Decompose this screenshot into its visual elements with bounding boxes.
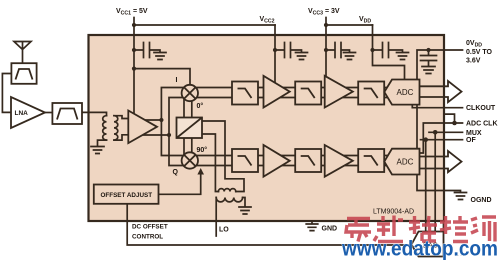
wire OGND pin <box>444 191 461 193</box>
wire CLKOUT pin <box>444 107 463 109</box>
svg-text:90°: 90° <box>197 146 208 154</box>
svg-text:CONTROL: CONTROL <box>132 234 163 241</box>
ground for C1 <box>154 53 166 60</box>
wire T2 primary to ground <box>243 198 245 207</box>
svg-text:······: ······ <box>455 253 464 258</box>
lowpass filter LPF6 Q <box>358 149 384 172</box>
wire MUX pin <box>429 131 463 133</box>
capacitor C1 <box>134 43 160 58</box>
ADC I <box>384 80 419 105</box>
svg-text:DC OFFSET: DC OFFSET <box>132 224 168 231</box>
svg-text:LTM9004-AD: LTM9004-AD <box>373 209 414 216</box>
svg-text:OF: OF <box>466 137 476 144</box>
capacitor C4 <box>373 43 403 58</box>
antenna <box>14 42 31 64</box>
capacitor C3 <box>326 43 350 58</box>
svg-text:www.edatop.com: www.edatop.com <box>341 237 498 261</box>
svg-text:GND: GND <box>322 225 338 232</box>
wire A0 diff output lower split <box>143 98 186 166</box>
junction dots <box>132 23 136 27</box>
watermark chinese red <box>346 216 496 242</box>
ADC Q <box>384 149 419 175</box>
svg-text:Q: Q <box>173 169 179 176</box>
wire OGND inner <box>417 175 444 191</box>
phase splitter 0/90 <box>177 118 203 139</box>
amplifier A3 Q <box>264 145 290 177</box>
ground for OGND <box>455 193 467 200</box>
svg-text:3.6V: 3.6V <box>466 58 481 65</box>
ground for C4 <box>397 53 409 60</box>
svg-text:LNA: LNA <box>15 110 29 117</box>
module LTM9004 body <box>89 35 445 221</box>
wire offset adjust to Q arrow <box>159 174 201 195</box>
wire OF vertical to DAC <box>425 140 427 232</box>
input transformer T1 secondary <box>114 116 118 140</box>
wire LO drive to mixer M2 <box>184 138 192 156</box>
wire OVDD pin <box>417 50 463 149</box>
bandpass filter F1 <box>11 63 36 84</box>
wire T1 to amp A0 lower <box>114 135 129 140</box>
wire T1 primary to ground <box>98 140 107 146</box>
arrow offset inject head <box>197 168 204 175</box>
LNA amplifier <box>11 97 45 128</box>
wire ADC CLK second pin bend <box>444 114 455 123</box>
svg-text:OGND: OGND <box>471 197 492 204</box>
offset adjust block <box>94 185 159 204</box>
wire LNA to filter F2 <box>45 112 52 114</box>
amplifier A1 I <box>264 76 290 108</box>
wire I chain upper line <box>186 87 390 89</box>
capacitor C5 OVDD bypass <box>421 50 437 66</box>
wire LO drive to mixer M1 <box>184 98 192 118</box>
mixer M2 <box>182 152 198 168</box>
wire VCC1 to VCC2 rail <box>134 24 275 26</box>
amplifier A0 <box>128 111 157 144</box>
svg-text:ADC CLK: ADC CLK <box>466 121 498 128</box>
input transformer T1 primary <box>103 116 107 140</box>
DAC block <box>412 232 444 257</box>
lowpass filter LPF4 Q <box>232 149 258 172</box>
wire ADC CLK inner <box>420 123 445 153</box>
wire RF input into module <box>82 112 107 115</box>
mixer M1 <box>182 85 198 101</box>
svg-text:OFFSET ADJUST: OFFSET ADJUST <box>101 192 153 199</box>
wire T1 to amp A0 upper <box>114 116 129 119</box>
wire VDD drop to ADC <box>373 25 405 85</box>
LO transformer T2 secondary <box>218 189 235 192</box>
wire OF pin <box>421 139 463 141</box>
svg-text:LO: LO <box>219 227 229 234</box>
lowpass filter LPF1 I <box>232 82 258 105</box>
wire filter to LNA <box>2 74 11 113</box>
ground GND at module bottom <box>306 221 318 231</box>
svg-text:MUX: MUX <box>466 130 482 137</box>
wire mixer bias rail <box>134 69 190 97</box>
amplifier A4 Q <box>325 145 353 177</box>
svg-text:0.5V TO: 0.5V TO <box>466 49 492 56</box>
svg-text:0°: 0° <box>197 102 204 110</box>
wire I chain lower line <box>186 97 390 99</box>
wire VCC1 vertical <box>133 18 135 120</box>
LO transformer T2 primary <box>216 198 242 202</box>
svg-text:I: I <box>176 77 178 84</box>
wire Q chain upper line <box>186 155 390 157</box>
wire splitter to LO transformer outer <box>202 121 244 192</box>
svg-text:ADC: ADC <box>397 88 414 97</box>
wire CLKOUT inner <box>412 105 444 108</box>
wire ADC CLK pin <box>444 122 463 124</box>
wire DC offset control pin <box>127 204 411 245</box>
amplifier A2 I <box>325 76 353 108</box>
lowpass filter LPF2 I <box>295 82 321 105</box>
wire VCC3 to VDD rail <box>326 24 373 26</box>
ground for T2 <box>239 207 251 214</box>
svg-text:CLKOUT: CLKOUT <box>466 105 496 112</box>
ground for C2 <box>296 53 308 60</box>
wire LO pin <box>215 198 217 237</box>
ground for C5 <box>422 67 435 74</box>
ground for T1 <box>91 147 104 154</box>
capacitor C2 <box>275 43 302 58</box>
ground for C3 <box>344 53 356 60</box>
wire splitter to LO transformer inner <box>202 134 218 192</box>
wire MUX vertical to DAC <box>434 132 436 231</box>
lowpass filter LPF5 Q <box>295 149 321 172</box>
wire Q chain lower line <box>186 165 390 167</box>
wire A0 diff output upper split <box>145 88 186 156</box>
bandpass filter F2 <box>52 103 82 124</box>
output bus arrow I <box>420 81 462 102</box>
wire VCC3 vertical <box>325 18 327 81</box>
wire DAC link to module <box>443 221 445 232</box>
wire VCC2 drop to amplifier <box>274 25 276 84</box>
output bus arrow Q <box>420 151 462 172</box>
lowpass filter LPF3 I <box>358 82 384 105</box>
svg-text:ADC: ADC <box>397 158 414 167</box>
